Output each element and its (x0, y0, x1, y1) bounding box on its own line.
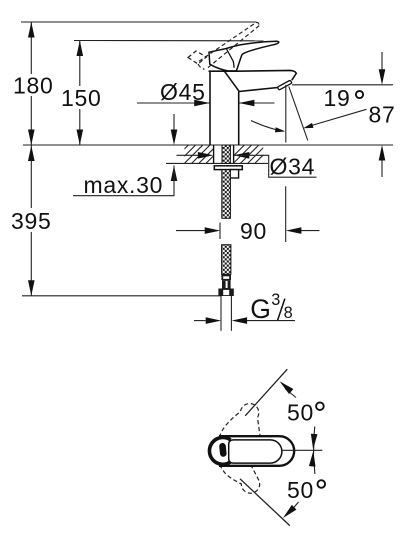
svg-text:Ø34: Ø34 (270, 153, 316, 179)
svg-text:90: 90 (240, 218, 267, 244)
svg-text:150: 150 (61, 85, 101, 111)
svg-text:3: 3 (271, 291, 281, 309)
svg-text:50: 50 (287, 400, 314, 426)
svg-text:G: G (250, 294, 271, 324)
svg-text:87: 87 (369, 101, 396, 127)
svg-text:max.30: max.30 (84, 172, 164, 198)
svg-text:180: 180 (13, 73, 53, 99)
svg-text:8: 8 (284, 304, 294, 322)
svg-text:19: 19 (324, 85, 351, 111)
svg-text:395: 395 (11, 208, 51, 234)
svg-text:50: 50 (287, 477, 314, 503)
svg-text:Ø45: Ø45 (160, 79, 206, 105)
